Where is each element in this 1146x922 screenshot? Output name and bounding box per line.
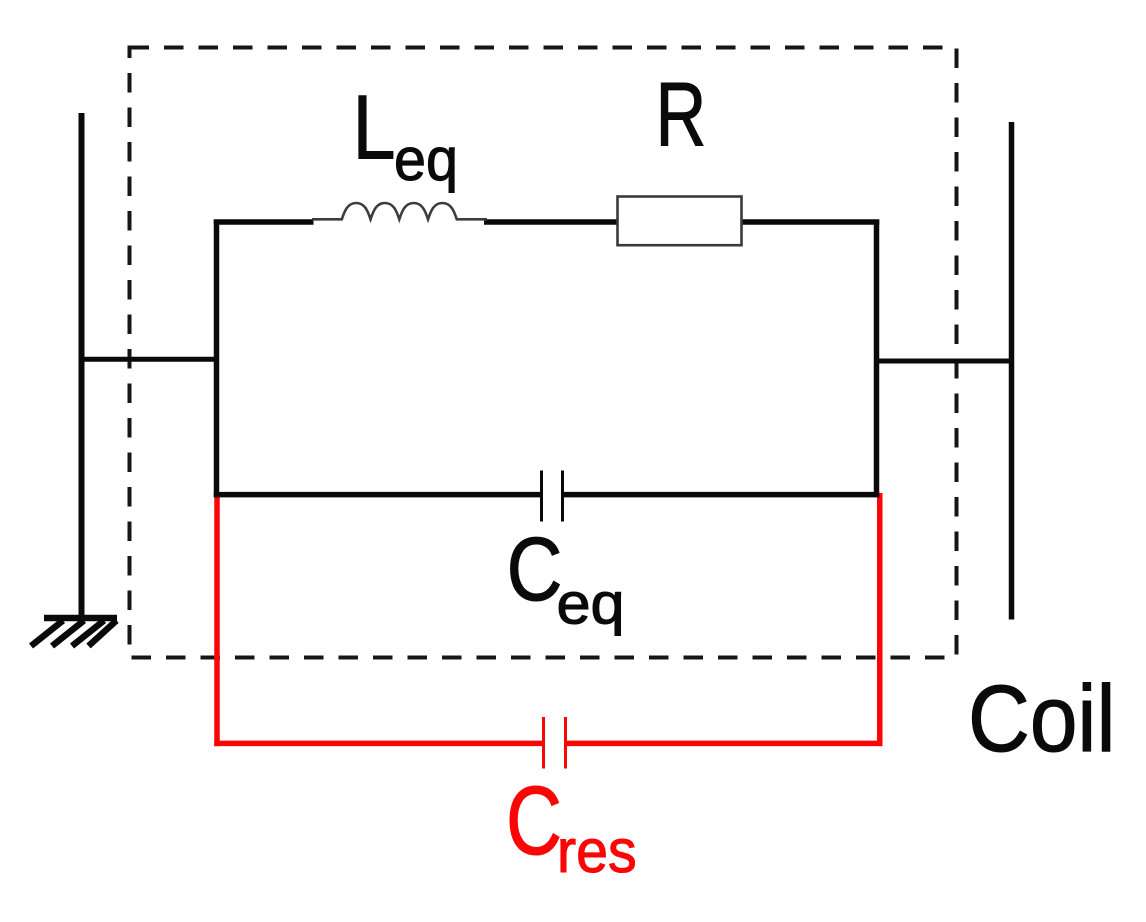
black equivalent-circuit loop [214, 220, 880, 498]
label Leq [353, 77, 458, 194]
svg-text:C: C [506, 766, 562, 875]
wire red bottom right [567, 741, 883, 747]
capacitor Cres right plate [564, 717, 567, 769]
svg-text:R: R [656, 64, 707, 166]
capacitor Cres left plate [542, 717, 545, 769]
wire top middle segment [484, 219, 620, 225]
svg-text:L: L [353, 77, 396, 178]
wire loop left vertical [214, 220, 220, 498]
label Cres [506, 766, 637, 886]
wire red bottom left [214, 741, 542, 747]
wire red left vertical [214, 493, 220, 746]
wire top left segment [214, 219, 314, 225]
capacitor Cres (red resonance loop) [214, 493, 882, 769]
label Ceq [507, 518, 625, 636]
capacitor Ceq left plate [540, 471, 543, 522]
svg-text:Coil: Coil [968, 666, 1115, 772]
wire loop right vertical [874, 220, 880, 498]
ground [31, 618, 117, 646]
inductor Leq coil [312, 203, 487, 219]
wire right connector [876, 359, 1012, 364]
capacitor Ceq right plate [561, 471, 564, 522]
dashed equivalent-circuit boundary box [130, 48, 957, 658]
wire top right segment [739, 219, 879, 225]
resistor R body [618, 197, 742, 246]
wire bottom right segment [564, 492, 879, 498]
svg-text:C: C [507, 518, 563, 619]
wire red right vertical [877, 493, 883, 746]
svg-text:eq: eq [394, 127, 458, 193]
left electrode line [79, 113, 85, 617]
svg-text:res: res [557, 816, 637, 885]
svg-text:eq: eq [557, 571, 625, 636]
wire bottom left segment [214, 492, 541, 498]
wire left connector [79, 357, 217, 362]
right electrode line [1009, 122, 1015, 620]
